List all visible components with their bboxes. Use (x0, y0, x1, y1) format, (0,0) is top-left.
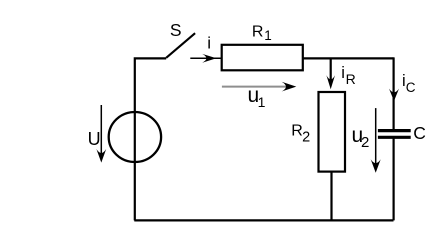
capacitor C bottom plate (378, 136, 411, 139)
wire R1 to right corner (303, 57, 394, 59)
current arrow i (head) (202, 54, 216, 63)
source U circle (109, 112, 161, 162)
svg-text:1: 1 (258, 94, 266, 110)
current arrow i (line) (190, 57, 221, 59)
wire right vertical upper (to capacitor) (393, 57, 395, 130)
wire R2 bottom lead (330, 172, 332, 221)
wire right vertical lower (capacitor to bottom) (393, 138, 395, 221)
wire left vertical + top-left horizontal (135, 58, 166, 220)
svg-text:C: C (413, 123, 426, 143)
svg-text:R: R (346, 71, 356, 87)
switch S blade (166, 33, 195, 58)
resistor R1 (222, 45, 303, 71)
current arrow iR (head) (326, 75, 335, 89)
svg-text:i: i (207, 34, 211, 53)
wire junction to R2 with current arrow iR (330, 58, 332, 80)
svg-text:i: i (341, 64, 345, 82)
svg-text:U: U (88, 129, 101, 149)
svg-text:2: 2 (361, 134, 369, 151)
svg-text:R: R (252, 23, 264, 40)
resistor R2 (319, 92, 346, 172)
wire bottom horizontal (134, 219, 393, 221)
voltage arrow u1 (head) (282, 82, 297, 92)
voltage arrow U (line) (100, 105, 102, 156)
voltage arrow u2 (line) (375, 108, 377, 166)
voltage arrow U (head) (96, 149, 106, 163)
svg-text:C: C (406, 80, 416, 95)
voltage arrow u2 (head) (371, 159, 381, 173)
svg-text:S: S (170, 20, 182, 40)
current arrow iC (head) (389, 89, 399, 101)
svg-text:1: 1 (264, 28, 272, 43)
voltage arrow u1 (gray line) (222, 86, 291, 88)
capacitor C top plate (378, 129, 411, 132)
svg-text:2: 2 (302, 129, 310, 145)
